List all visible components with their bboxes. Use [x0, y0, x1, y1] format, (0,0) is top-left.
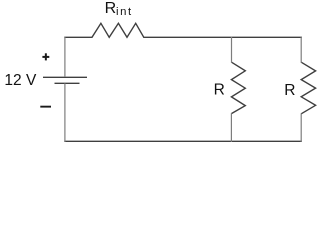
svg-text:R: R: [284, 82, 295, 99]
svg-text:R: R: [214, 82, 225, 99]
svg-text:R: R: [105, 0, 117, 17]
svg-text:12 V: 12 V: [4, 72, 37, 89]
svg-text:int: int: [116, 6, 133, 18]
